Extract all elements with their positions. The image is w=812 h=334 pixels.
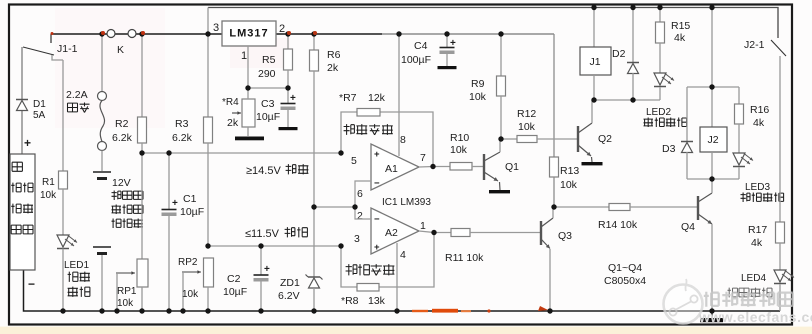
wire A2 pin4 to bus bbox=[396, 243, 398, 311]
svg-text:7: 7 bbox=[420, 152, 426, 164]
resistor R13 bbox=[550, 157, 580, 207]
svg-text:C3: C3 bbox=[261, 98, 275, 110]
ground under C3 bbox=[279, 127, 298, 130]
svg-text:−: − bbox=[28, 277, 35, 291]
potentiometer R4 bbox=[222, 88, 255, 129]
potentiometer RP1 bbox=[116, 259, 148, 311]
svg-text:D3: D3 bbox=[662, 143, 676, 155]
zener ZD1 bbox=[278, 275, 323, 312]
svg-text:2: 2 bbox=[357, 210, 363, 222]
svg-text:R15: R15 bbox=[671, 20, 690, 32]
watermark url www.elecfans.com bbox=[698, 309, 812, 325]
LED1 bbox=[57, 235, 90, 297]
resistor R12 bbox=[501, 108, 577, 143]
svg-text:A2: A2 bbox=[385, 227, 398, 239]
ground Q1 emitter bbox=[489, 182, 510, 193]
svg-text:12k: 12k bbox=[368, 92, 386, 104]
resistor R16 bbox=[735, 87, 770, 153]
svg-text:3: 3 bbox=[354, 233, 360, 245]
svg-text:R14 10k: R14 10k bbox=[598, 219, 638, 231]
svg-text:1: 1 bbox=[241, 50, 247, 62]
wire lower sense node bbox=[208, 245, 341, 247]
op-amp A1 bbox=[351, 134, 426, 200]
ground at Q4 emitter bus bbox=[700, 311, 723, 322]
LED4 bbox=[728, 270, 795, 311]
svg-text:R1: R1 bbox=[42, 177, 55, 188]
svg-text:RP2: RP2 bbox=[178, 257, 198, 268]
svg-text:R16: R16 bbox=[750, 104, 769, 116]
svg-text:R6: R6 bbox=[327, 49, 341, 61]
relay J1 coil bbox=[580, 8, 611, 101]
svg-text:LED1: LED1 bbox=[64, 260, 89, 271]
svg-text:C2: C2 bbox=[227, 273, 241, 285]
diode D1 bbox=[16, 99, 46, 121]
wire J2 branch top bbox=[687, 86, 739, 88]
switch J1-1 arm bbox=[23, 43, 78, 55]
wire R2-RP1 bbox=[141, 153, 143, 259]
wire R11 to Q3 bbox=[470, 232, 540, 234]
diode D3 bbox=[662, 87, 693, 179]
svg-text:J2-1: J2-1 bbox=[744, 39, 765, 51]
svg-text:+: + bbox=[264, 264, 270, 275]
svg-text:≤11.5V: ≤11.5V bbox=[245, 228, 280, 240]
wire Q3 collector bbox=[552, 207, 554, 218]
battery 12V bbox=[93, 151, 143, 312]
wire Q4 collector bbox=[711, 179, 713, 193]
svg-text:10µF: 10µF bbox=[223, 286, 247, 298]
svg-text:J1: J1 bbox=[589, 56, 600, 68]
svg-text:R12: R12 bbox=[517, 108, 536, 120]
svg-text:12V: 12V bbox=[112, 177, 131, 189]
svg-text:10k: 10k bbox=[518, 121, 536, 133]
svg-text:+: + bbox=[374, 242, 380, 253]
svg-text:R9: R9 bbox=[471, 78, 485, 90]
svg-text:Q3: Q3 bbox=[558, 230, 572, 242]
resistor R14 bbox=[554, 204, 697, 232]
relay J2 coil bbox=[700, 87, 727, 179]
potentiometer RP2 bbox=[178, 257, 214, 311]
wire J2 branch drop bbox=[711, 8, 713, 88]
op-amp A2 bbox=[354, 208, 426, 261]
svg-text:www.elecfans.com: www.elecfans.com bbox=[698, 309, 812, 325]
resistor R11 bbox=[445, 229, 484, 265]
ground under R4 bbox=[235, 127, 264, 140]
svg-text:J2: J2 bbox=[707, 134, 718, 146]
svg-text:K: K bbox=[117, 44, 124, 56]
svg-text:2.2A: 2.2A bbox=[66, 89, 88, 101]
diode D2 bbox=[612, 8, 639, 101]
svg-text:Q1: Q1 bbox=[505, 161, 519, 173]
svg-text:Q1~Q4: Q1~Q4 bbox=[608, 262, 642, 274]
svg-text:5: 5 bbox=[351, 155, 357, 167]
svg-text:≥14.5V: ≥14.5V bbox=[246, 165, 281, 177]
svg-text:ZD1: ZD1 bbox=[280, 277, 300, 289]
svg-text:C4: C4 bbox=[414, 40, 428, 52]
wire Q2 collector node bbox=[594, 99, 660, 101]
ground Q2 emitter bbox=[582, 157, 603, 165]
transistor Q4 bbox=[681, 193, 712, 233]
LED2 bbox=[644, 73, 687, 127]
wire R10 to Q1 bbox=[472, 166, 483, 168]
wire LM317 pin1 bbox=[247, 46, 249, 88]
svg-text:R10: R10 bbox=[450, 132, 469, 144]
svg-text:4k: 4k bbox=[753, 117, 765, 129]
wire adj node bbox=[248, 87, 288, 89]
svg-text:R13: R13 bbox=[560, 165, 579, 177]
svg-text:*R4: *R4 bbox=[222, 97, 239, 108]
svg-text:R11 10k: R11 10k bbox=[445, 252, 484, 264]
wire charging rail bbox=[51, 33, 554, 35]
wire LM317 input junction drop bbox=[207, 8, 209, 118]
wire bottom ground bus bbox=[24, 270, 781, 311]
svg-text:10µF: 10µF bbox=[180, 206, 204, 218]
svg-text:−: − bbox=[374, 178, 380, 189]
bottom strip bbox=[0, 327, 812, 334]
resistor R9 bbox=[469, 34, 506, 139]
label overdischarge compare bbox=[346, 264, 395, 275]
svg-text:+: + bbox=[374, 149, 380, 160]
resistor R17 bbox=[748, 222, 785, 270]
capacitor C1 bbox=[162, 153, 205, 311]
svg-text:R3: R3 bbox=[175, 118, 189, 130]
svg-text:+: + bbox=[172, 198, 178, 209]
svg-text:−: − bbox=[374, 214, 380, 225]
wire reference to comparators bbox=[314, 206, 355, 208]
svg-text:10µF: 10µF bbox=[256, 111, 280, 123]
svg-text:D1: D1 bbox=[33, 99, 46, 110]
svg-text:8: 8 bbox=[400, 134, 406, 146]
resistor R8 feedback bbox=[341, 233, 434, 308]
svg-text:10k: 10k bbox=[469, 91, 487, 103]
svg-text:RP1: RP1 bbox=[117, 286, 137, 297]
svg-text:Q4: Q4 bbox=[681, 221, 695, 233]
resistor R3 bbox=[172, 117, 213, 144]
resistor R1 bbox=[40, 171, 68, 201]
svg-text:100µF: 100µF bbox=[401, 54, 431, 66]
wire R1 to LED1 bbox=[62, 189, 64, 235]
label overcharge compare bbox=[344, 124, 393, 135]
LED3 bbox=[733, 153, 784, 202]
resistor R15 bbox=[656, 8, 691, 74]
label Q1-Q4 type bbox=[604, 262, 646, 287]
switch J2-1 bbox=[744, 39, 786, 56]
wire D1 branch bbox=[21, 47, 23, 154]
wire Q1 collector bbox=[499, 139, 501, 152]
wire A1 output bbox=[419, 166, 450, 169]
wire Q3 emitter bbox=[549, 249, 551, 311]
wire A2 output bbox=[419, 231, 451, 233]
fuse F1 2.2A bbox=[66, 34, 107, 151]
wire load line bbox=[779, 56, 781, 222]
svg-text:6.2k: 6.2k bbox=[112, 132, 133, 144]
resistor R10 bbox=[450, 132, 472, 170]
svg-text:C1: C1 bbox=[183, 193, 197, 205]
transistor Q3 bbox=[541, 218, 572, 249]
svg-text:6.2k: 6.2k bbox=[172, 132, 193, 144]
regulator U1 LM317 bbox=[213, 21, 285, 62]
svg-text:10k: 10k bbox=[450, 144, 468, 156]
wire R13 drop from rail bbox=[553, 34, 555, 157]
svg-text:IC1 LM393: IC1 LM393 bbox=[382, 197, 431, 208]
svg-text:6: 6 bbox=[357, 188, 363, 200]
svg-text:2k: 2k bbox=[227, 117, 239, 129]
svg-text:+: + bbox=[450, 38, 456, 49]
wire J1-1 to R1 branch bbox=[52, 55, 63, 171]
watermark logo elecfans bbox=[664, 279, 703, 324]
svg-text:Q2: Q2 bbox=[598, 133, 612, 145]
svg-text:10k: 10k bbox=[182, 289, 199, 300]
svg-text:10k: 10k bbox=[40, 190, 57, 201]
svg-text:LED3: LED3 bbox=[745, 182, 770, 193]
capacitor C4 bbox=[401, 34, 456, 66]
capacitor C2 bbox=[223, 246, 270, 311]
ground under C4 bbox=[438, 66, 457, 69]
svg-text:+: + bbox=[290, 93, 296, 104]
svg-text:4k: 4k bbox=[751, 237, 763, 249]
wire R3 lower bbox=[207, 143, 209, 246]
contact K circles bbox=[107, 30, 136, 57]
resistor R6 bbox=[310, 34, 341, 74]
svg-text:LED2: LED2 bbox=[646, 107, 671, 118]
wire Q4 emitter bbox=[711, 224, 713, 311]
svg-text:R5: R5 bbox=[262, 54, 276, 66]
svg-text:4: 4 bbox=[400, 249, 406, 261]
node solar plus bbox=[24, 136, 31, 150]
svg-text:LM317: LM317 bbox=[229, 28, 268, 40]
watermark text dianzifashaoyou bbox=[704, 292, 793, 307]
svg-text:6.2V: 6.2V bbox=[278, 290, 300, 302]
transistor Q1 bbox=[484, 152, 519, 181]
wire LED1 to bus bbox=[62, 249, 64, 312]
node solar minus bbox=[28, 277, 35, 291]
wire R2 branch top bbox=[141, 34, 143, 117]
resistor R2 bbox=[112, 117, 147, 144]
red smudges on bus bbox=[412, 306, 548, 313]
svg-text:C8050x4: C8050x4 bbox=[604, 275, 646, 287]
wire Q2 collector bbox=[591, 100, 593, 123]
label overdischarge threshold bbox=[245, 227, 307, 240]
svg-text:LED4: LED4 bbox=[741, 273, 766, 284]
transistor Q2 bbox=[578, 123, 612, 156]
solar cell module box bbox=[10, 154, 35, 270]
resistor R5 bbox=[258, 34, 293, 88]
wire R2 sense node bbox=[142, 143, 341, 153]
wire top positive bus bbox=[208, 8, 778, 39]
svg-text:13k: 13k bbox=[368, 295, 386, 307]
svg-text:*R8: *R8 bbox=[341, 295, 359, 307]
svg-text:R17: R17 bbox=[748, 224, 767, 236]
svg-text:10k: 10k bbox=[560, 179, 578, 191]
svg-text:D2: D2 bbox=[612, 48, 626, 60]
capacitor C3 bbox=[256, 88, 296, 127]
node J1-1 fixed contact stub bbox=[50, 34, 52, 43]
svg-text:3: 3 bbox=[213, 22, 219, 34]
svg-text:5A: 5A bbox=[33, 110, 46, 121]
svg-text:J1-1: J1-1 bbox=[57, 43, 78, 55]
svg-text:2: 2 bbox=[279, 23, 285, 35]
svg-text:A1: A1 bbox=[385, 163, 398, 175]
red contact marks bbox=[51, 31, 318, 35]
svg-text:2k: 2k bbox=[327, 62, 339, 74]
wire J2 branch bottom bbox=[687, 178, 739, 180]
wire inverting bracket bbox=[355, 181, 371, 219]
resistor R7 feedback bbox=[339, 92, 433, 167]
wire R6 to reference node bbox=[313, 71, 315, 277]
svg-text:10k: 10k bbox=[117, 298, 134, 309]
svg-text:1: 1 bbox=[420, 220, 426, 232]
label overcharge threshold bbox=[246, 164, 308, 177]
wire A1 pin8 to rail bbox=[398, 34, 400, 156]
svg-text:R2: R2 bbox=[115, 118, 129, 130]
svg-text:4k: 4k bbox=[674, 32, 686, 44]
label IC1 LM393 bbox=[382, 197, 431, 208]
svg-text:290: 290 bbox=[258, 68, 276, 80]
svg-text:*R7: *R7 bbox=[339, 92, 357, 104]
svg-text:+: + bbox=[24, 136, 31, 150]
